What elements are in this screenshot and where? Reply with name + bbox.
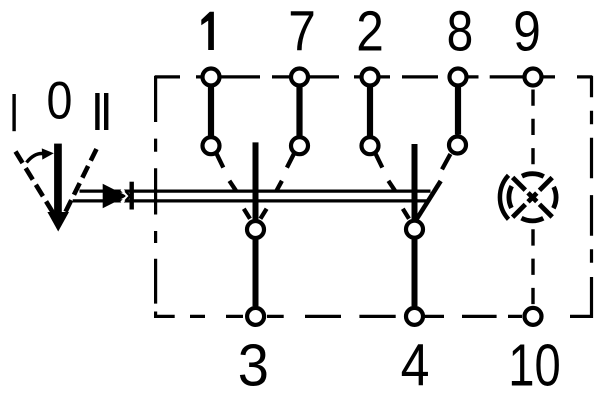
actuator arrow sliver [125, 191, 130, 201]
svg-text:0: 0 [47, 71, 73, 130]
contact 7 [291, 137, 308, 154]
svg-text:3: 3 [238, 333, 269, 399]
lamp cross line A [513, 177, 553, 217]
wire stub terminal 1 [208, 87, 214, 136]
enclosure border left [154, 76, 157, 318]
lever dashed position II [62, 149, 97, 220]
dashed contact line 1-3 [216, 153, 250, 219]
enclosure border top [155, 75, 592, 78]
terminal 8 [450, 69, 467, 86]
terminal 7 [291, 69, 308, 86]
wire stub terminal 2 [367, 87, 373, 136]
actuator crossbar [129, 182, 133, 210]
wire stub terminal 8 [455, 87, 461, 135]
wire 9 to lamp dashed [531, 90, 534, 165]
terminal 1 [203, 69, 220, 86]
contact 1 [203, 137, 220, 154]
actuator arrow head [103, 184, 127, 208]
actuator shaft upper line [80, 190, 431, 193]
lever position 0 [54, 144, 62, 213]
actuator shaft lower line [73, 199, 427, 202]
svg-text:4: 4 [401, 332, 430, 398]
terminal 9 [525, 69, 542, 86]
lamp reflector arc [500, 175, 509, 219]
enclosure border right [590, 76, 593, 318]
pole contact 3 [247, 221, 264, 238]
actuator arrow notch [122, 189, 128, 202]
wire lamp to 10 dashed [531, 229, 534, 304]
svg-text:8: 8 [447, 0, 474, 63]
svg-text:7: 7 [288, 0, 316, 63]
dashed contact line 2-4 [375, 153, 409, 219]
terminal 2 [362, 69, 379, 86]
terminal 3 [247, 308, 264, 325]
position label I [12, 94, 15, 131]
enclosure border bottom [156, 315, 592, 318]
label 1 [201, 12, 214, 50]
svg-text:2: 2 [356, 0, 384, 63]
closed contact blade 8-4 [416, 181, 441, 221]
dashed contact line 7-3 [260, 153, 294, 219]
contact 8 [449, 137, 466, 154]
pole contact 4 [406, 221, 423, 238]
lever dashed position I [16, 152, 54, 214]
pole bar 4 [412, 144, 418, 306]
contact 2 [362, 137, 379, 154]
terminal 4 [406, 308, 423, 325]
svg-text:10: 10 [508, 334, 560, 399]
pole bar 3 [253, 142, 259, 306]
lamp cross line B [513, 177, 553, 217]
terminal 10 [525, 308, 542, 325]
rotation arrow [27, 153, 44, 162]
wire stub terminal 7 [296, 87, 302, 136]
contact stub 8 [442, 154, 450, 169]
position label II [95, 93, 99, 130]
lever arrow head [47, 212, 69, 232]
lamp L1 dashed circle [509, 174, 556, 221]
svg-text:9: 9 [513, 0, 541, 63]
